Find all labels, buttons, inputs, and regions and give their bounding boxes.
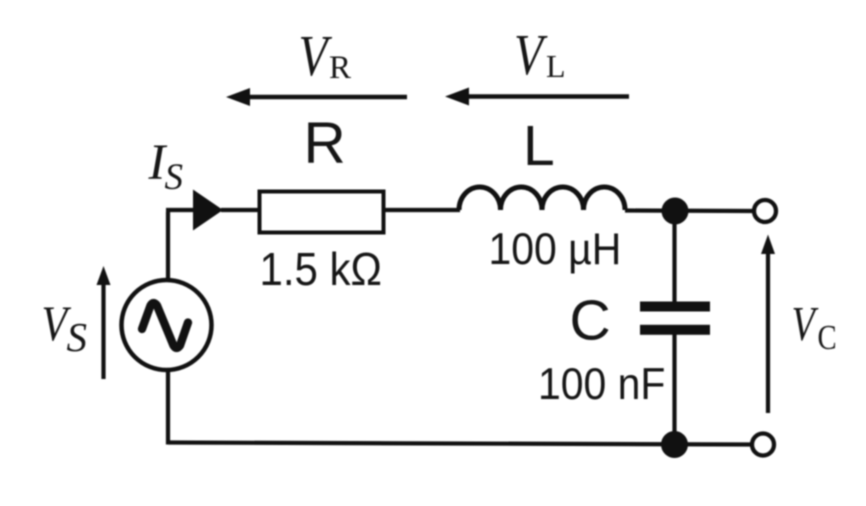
svg-text:L: L (546, 48, 566, 84)
inductor L (coil, 4 humps) (459, 187, 625, 210)
svg-text:V: V (792, 297, 820, 352)
svg-text:V: V (299, 25, 333, 88)
node: top junction dot (662, 198, 689, 225)
capacitor C (top plate) (640, 302, 710, 312)
node: bottom junction dot (661, 431, 688, 458)
svg-text:C: C (818, 317, 837, 356)
svg-text:V: V (514, 24, 548, 87)
current direction arrow I_S (filled triangle) (193, 190, 223, 231)
arrow: V_R reference (left) (245, 95, 407, 100)
svg-text:1.5 kΩ: 1.5 kΩ (260, 244, 382, 295)
terminal: top output (open circle) (754, 200, 776, 222)
svg-text:S: S (165, 157, 184, 198)
arrow: V_C reference (up) (766, 249, 770, 413)
wire: bottom-left vertical (source bottom to bottom rail) (166, 371, 170, 445)
arrow: V_L reference (left) (464, 94, 629, 99)
svg-text:R: R (304, 111, 346, 176)
resistor R (body) (260, 192, 384, 233)
source V_S sine-wave symbol (142, 303, 188, 348)
svg-text:L: L (523, 114, 555, 178)
wire: resistor to inductor (383, 208, 460, 212)
wire: top-left corner vertical (source top to top rail) (166, 212, 170, 280)
wire: bottom rail (168, 443, 752, 445)
svg-text:R: R (329, 50, 351, 86)
arrow: V_S reference (up) (101, 278, 105, 379)
svg-text:S: S (67, 314, 88, 360)
svg-text:100 µH: 100 µH (489, 224, 622, 274)
wire: top node down to capacitor (672, 211, 676, 445)
wire: triangle to resistor (221, 208, 258, 212)
capacitor C (bottom plate) (640, 325, 710, 335)
source V_S (AC source circle) (122, 280, 212, 370)
wire: inductor to top output node (625, 208, 753, 213)
svg-text:C: C (570, 289, 611, 353)
wire: top rail from corner to current arrow (166, 208, 196, 212)
terminal: bottom output (open circle) (752, 434, 774, 456)
svg-text:100 nF: 100 nF (538, 359, 665, 409)
